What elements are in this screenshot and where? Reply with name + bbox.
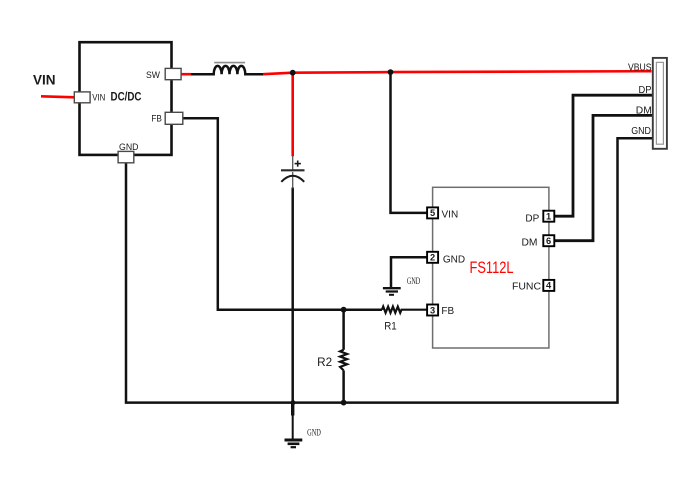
svg-text:GND: GND [443, 255, 465, 266]
svg-text:DP: DP [639, 84, 652, 96]
svg-text:GND: GND [407, 276, 421, 286]
svg-text:1: 1 [546, 212, 551, 222]
svg-text:FS112L: FS112L [470, 259, 514, 277]
svg-text:GND: GND [119, 142, 139, 153]
svg-text:DM: DM [636, 104, 652, 116]
svg-text:VBUS: VBUS [628, 61, 652, 73]
svg-text:6: 6 [546, 236, 551, 246]
svg-text:VIN: VIN [442, 210, 459, 221]
svg-text:R1: R1 [384, 321, 397, 333]
svg-text:2: 2 [430, 253, 435, 263]
svg-text:3: 3 [430, 305, 435, 315]
svg-text:FUNC: FUNC [512, 282, 541, 293]
svg-text:DM: DM [522, 237, 538, 248]
svg-text:5: 5 [430, 208, 435, 218]
svg-text:FB: FB [441, 306, 454, 317]
svg-text:R2: R2 [317, 357, 332, 369]
svg-text:SW: SW [146, 70, 160, 81]
svg-text:FB: FB [151, 113, 162, 124]
svg-text:GND: GND [631, 125, 651, 137]
svg-text:GND: GND [307, 427, 321, 437]
svg-text:DC/DC: DC/DC [111, 92, 142, 104]
svg-text:DP: DP [525, 213, 539, 224]
svg-text:4: 4 [546, 281, 552, 291]
svg-text:VIN: VIN [92, 93, 105, 103]
svg-text:VIN: VIN [33, 72, 56, 87]
